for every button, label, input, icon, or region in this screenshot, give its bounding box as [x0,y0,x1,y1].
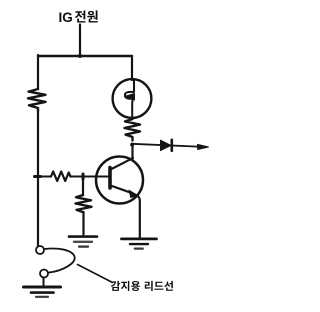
wire base line left [38,176,51,178]
wire collector vertical up [131,145,133,159]
wire base line right [71,176,109,178]
ground G3 (bottom left, large) [24,287,61,297]
wire curved lead from O1 [45,249,75,273]
leader line to label [78,265,113,283]
resistor R4 (horizontal, base) [51,172,71,182]
svg-text:IG: IG [59,10,73,25]
diode D1 triangle [161,140,172,150]
wire O2 to ground [43,278,45,288]
wire left rail lower [37,110,39,246]
wire supply bus horizontal [38,55,132,57]
wire diode branch line [132,144,198,147]
wire lamp top lead from bus [131,56,133,80]
resistor R2 (vertical, between lamp and collector) [125,119,141,140]
wire R3 top lead [82,177,84,195]
wire R3 bottom lead [82,212,84,235]
node junction at diode branch [130,143,134,147]
node junction at R3 top [82,174,85,179]
resistor R3 (vertical, base to ground) [76,195,92,212]
node junction tick at base line [35,175,41,178]
wire output arrow end [198,144,209,149]
lamp L1 filament [125,80,134,99]
transistor Q1 emitter diagonal with arrow [111,186,134,194]
terminal O2 (lower open circle) [40,270,48,278]
lamp L1 circle [113,79,152,118]
wire left rail upper [37,55,39,89]
ground G2 (emitter) [122,239,157,249]
transistor Q1 base bar [108,168,112,189]
ground G1 (below R3) [69,237,97,247]
wire from IG label down to supply bus [79,25,81,57]
transistor Q1 circle [96,157,143,204]
diode D1 cathode bar [171,140,174,151]
label "감지용 리드선" (sensing lead wire) [111,281,173,291]
terminal O1 (upper open circle) [36,246,44,254]
resistor R1 (left vertical) [28,89,46,111]
transistor Q1 collector diagonal [111,158,134,170]
node junction dot on bus [78,54,82,58]
wire emitter lead down [137,196,140,238]
